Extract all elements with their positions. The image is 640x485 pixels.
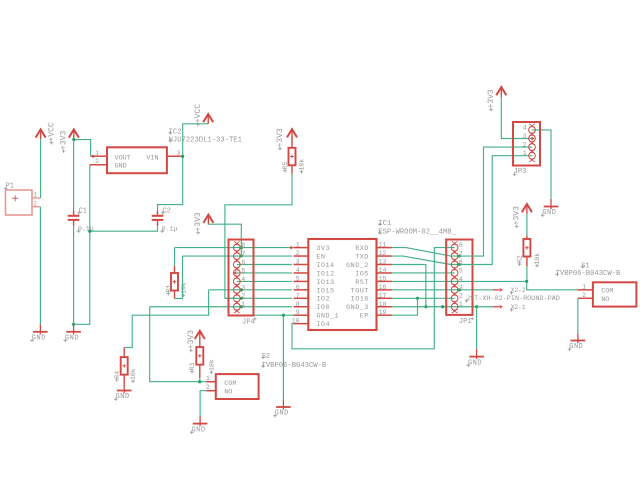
svg-text:ESP-WROOM-02__4MB_: ESP-WROOM-02__4MB_ (378, 229, 456, 237)
wire JP3 pin2 to RXD (459, 147, 532, 256)
resistor R1 body (171, 273, 178, 291)
connector JP4 arrow pin5 (233, 271, 236, 275)
ground GND-JP3 (541, 199, 559, 217)
svg-text:4: 4 (241, 276, 245, 283)
svg-text:IO2: IO2 (316, 296, 330, 304)
wire JP4 row7 IO2 (225, 297, 292, 299)
svg-text:R5: R5 (282, 162, 289, 170)
svg-text:+3V3: +3V3 (513, 206, 522, 225)
junction 3V3 row1 (240, 246, 243, 249)
relay S1 pin names (601, 287, 613, 304)
wire R4 bottom stub (123, 375, 125, 383)
svg-text:3: 3 (177, 150, 181, 157)
IC2 pin 2 (90, 164, 107, 166)
junction GND C2 (88, 230, 91, 233)
module IC1 body (308, 239, 376, 330)
svg-text:COM: COM (224, 380, 236, 388)
svg-text:VOUT: VOUT (115, 154, 131, 162)
svg-text:IO0: IO0 (316, 304, 330, 312)
svg-text:IO12: IO12 (316, 270, 334, 278)
svg-text:+3V3: +3V3 (60, 130, 69, 149)
op-amp IC2 regulator body (107, 147, 167, 173)
wire R2 top (526, 214, 528, 239)
svg-text:14: 14 (379, 267, 387, 274)
svg-text:10k: 10k (180, 282, 187, 294)
supply 3V3-R2 arrow (522, 204, 532, 214)
ground GND-S1 (568, 333, 586, 351)
svg-text:JST-XH-02-PIN-ROUND-PAD: JST-XH-02-PIN-ROUND-PAD (466, 295, 560, 303)
svg-text:GND_1: GND_1 (316, 313, 339, 321)
connector JP4 pads (233, 241, 240, 313)
IC2 name (168, 129, 181, 137)
connector JP4 name (242, 317, 257, 326)
relay S2 pin numbers (206, 375, 210, 391)
supply VCC-2 arrow (203, 114, 213, 124)
relay S2 pin 1 (206, 381, 216, 383)
svg-text:GND: GND (116, 393, 130, 401)
junction IO0 row (240, 305, 243, 308)
resistor R5 name (282, 162, 289, 173)
wire 3V3 to JP4 rows (208, 224, 241, 256)
junction IO15 row (240, 288, 243, 291)
connector P1 pin numbers (33, 192, 37, 208)
IC1 left pin names (316, 245, 339, 329)
relay S1 value (555, 270, 621, 278)
net flag X2-1 (493, 304, 526, 311)
svg-text:10k: 10k (534, 253, 541, 265)
resistor R2 name (517, 255, 524, 266)
svg-text:+VCC: +VCC (47, 122, 56, 141)
capacitor C2 body (152, 211, 164, 227)
IC1 left pin numbers (292, 242, 300, 325)
svg-text:+VCC: +VCC (194, 104, 203, 123)
svg-text:9: 9 (296, 309, 300, 316)
junction TOUT JP1 (458, 288, 461, 291)
wire JP4 row2 EN (183, 255, 293, 257)
svg-text:4: 4 (523, 124, 527, 131)
connector JP1 body (446, 240, 472, 315)
svg-text:RST: RST (355, 279, 369, 287)
relay S2 pin names (224, 380, 236, 397)
svg-text:11: 11 (379, 242, 387, 249)
relay S1 body (593, 282, 637, 306)
ground GND-S2 (190, 416, 208, 434)
svg-text:EN: EN (316, 253, 325, 261)
resistor R5 value (298, 159, 305, 174)
IC2 pin names (115, 154, 159, 170)
wire JP4 row4 IO12 (237, 272, 292, 274)
svg-text:15: 15 (379, 275, 387, 282)
wire R1 top (174, 248, 176, 273)
svg-text:R4: R4 (114, 371, 121, 379)
wire TXD diagonal (392, 256, 460, 264)
connector JP4 body (229, 240, 254, 316)
relay S2 body (216, 374, 259, 399)
connector P1 pin 2 (31, 206, 40, 208)
resistor R4 name (114, 371, 121, 382)
capacitor C1 value (77, 226, 94, 233)
svg-text:JP4: JP4 (242, 318, 255, 326)
wire VCC to P1 pin1 (40, 139, 42, 198)
supply 3V3-R5 label (276, 128, 285, 150)
resistor R1 value (180, 282, 187, 297)
svg-text:COM: COM (601, 287, 613, 295)
connector JP3 pads (529, 124, 536, 162)
wire IO4 to JP1 pin8 (292, 248, 455, 349)
IC2 pin numbers (95, 150, 180, 165)
svg-text:TOUT: TOUT (351, 287, 369, 295)
svg-text:GND: GND (192, 426, 206, 434)
wire GND_1 row9 (240, 314, 293, 316)
supply VCC-1 arrow (36, 129, 46, 139)
resistor R3 value (208, 359, 215, 374)
wire IO15 to R4 (124, 290, 208, 348)
svg-text:+3V3: +3V3 (487, 89, 496, 108)
relay S1 pin 1 (577, 289, 593, 291)
wire reg GND to GND rail (74, 165, 90, 325)
svg-text:R2: R2 (517, 255, 524, 263)
junction IO2 row (240, 297, 243, 300)
svg-text:GND: GND (569, 343, 583, 351)
resistor R4 body (121, 357, 128, 375)
svg-text:IO16: IO16 (351, 296, 369, 304)
wire R5 bottom stub (291, 165, 293, 174)
svg-text:5: 5 (459, 267, 463, 274)
svg-text:1: 1 (95, 150, 99, 157)
svg-text:IO5: IO5 (355, 270, 369, 278)
wire R5 to JP4 pin2 (225, 174, 292, 298)
svg-text:IO14: IO14 (316, 262, 334, 270)
svg-text:5: 5 (241, 267, 245, 274)
svg-text:10k: 10k (298, 159, 305, 171)
capacitor C2 value (160, 226, 177, 233)
wire R2 to S1 pin1 (527, 281, 578, 289)
supply 3V3-JP3 label (487, 89, 496, 111)
wire S1 pin2 to GND (577, 298, 579, 333)
supply 3V3-JP4 label (194, 212, 203, 234)
wire R4 top stub (123, 348, 125, 358)
wire C1 bottom to GND (73, 226, 75, 324)
svg-text:2: 2 (296, 250, 300, 257)
junction TXD JP1 (458, 263, 461, 266)
relay S1 name (581, 262, 590, 270)
connector P1 name (4, 183, 14, 191)
svg-text:3: 3 (296, 259, 300, 266)
svg-text:EP: EP (360, 313, 369, 321)
wire IO0 to S2 (150, 307, 207, 382)
svg-text:1: 1 (582, 283, 586, 290)
junction GND left (72, 323, 75, 326)
svg-text:8: 8 (459, 242, 463, 249)
svg-text:2: 2 (95, 158, 99, 165)
svg-text:3: 3 (523, 133, 527, 140)
svg-text:8: 8 (296, 301, 300, 308)
wire 3V3 node to VOUT (74, 140, 91, 157)
supply VCC-2 label (194, 104, 203, 126)
svg-text:10k: 10k (130, 368, 137, 380)
ground GND-JP4 (273, 400, 291, 418)
wire JP3 pin4 to GND (532, 130, 551, 199)
connector JP3 name (513, 168, 526, 176)
wire IO5 row (392, 272, 455, 274)
relay S1 pin numbers (582, 283, 586, 299)
ground GND-JP1 (466, 349, 484, 367)
resistor R2 body (523, 239, 530, 257)
connector JP3 pin numbers (523, 124, 527, 157)
wire GND_3 row (392, 306, 493, 308)
resistor R1 name (165, 285, 172, 296)
svg-text:4: 4 (296, 267, 300, 274)
wire R3 bottom (199, 365, 201, 382)
svg-text:IO13: IO13 (316, 279, 334, 287)
wire RST row (392, 280, 527, 282)
supply 3V3-1 label (60, 130, 69, 152)
svg-text:2: 2 (206, 384, 210, 391)
svg-text:2: 2 (523, 142, 527, 149)
svg-text:GND_3: GND_3 (346, 304, 369, 312)
capacitor C1 body (68, 211, 80, 227)
IC1 right pin numbers (379, 242, 387, 317)
svg-text:2: 2 (459, 293, 463, 300)
svg-text:1: 1 (459, 301, 463, 308)
svg-text:RXD: RXD (355, 245, 369, 253)
junction R2 RST (525, 280, 528, 283)
wire JP4 row3 IO14 (237, 264, 292, 266)
wire P1 pin2 to GND (39, 207, 41, 325)
svg-text:JP3: JP3 (514, 168, 527, 176)
wire R2 bottom (526, 257, 528, 282)
supply VCC-1 label (47, 122, 56, 144)
svg-text:GND_2: GND_2 (346, 262, 369, 270)
svg-text:2: 2 (582, 292, 586, 299)
svg-text:GND: GND (32, 335, 46, 343)
wire JP1 GND drop (476, 307, 478, 349)
svg-text:13: 13 (379, 259, 387, 266)
svg-text:3: 3 (241, 284, 245, 291)
connector JP1 value (465, 295, 560, 303)
svg-text:TVBP06-B043CW-B: TVBP06-B043CW-B (556, 270, 621, 278)
supply 3V3-R5 arrow (287, 129, 297, 139)
supply 3V3-R3 arrow (195, 331, 205, 341)
wire 3V3 to JP3 pin3 (501, 97, 532, 139)
IC2 pin 1 (91, 154, 107, 158)
svg-text:GND: GND (275, 410, 289, 418)
IC2 value (168, 137, 242, 145)
wire TOUT row (392, 289, 493, 291)
resistor R3 body (196, 347, 203, 365)
svg-text:3: 3 (459, 284, 463, 291)
IC1 right pin names (346, 245, 369, 321)
svg-text:6: 6 (296, 284, 300, 291)
junction GND_3 b (475, 305, 478, 308)
wire GND_1 down (282, 315, 284, 399)
wire EP riser (392, 298, 418, 315)
relay S2 name (261, 353, 270, 361)
resistor R4 value (130, 368, 137, 383)
svg-text:4: 4 (459, 276, 463, 283)
junction 3V3 node (72, 138, 75, 141)
svg-text:C2: C2 (162, 207, 170, 215)
svg-text:8: 8 (241, 242, 245, 249)
junction R3 S2 (198, 380, 201, 383)
connector JP3 body (513, 122, 540, 166)
junction GND_2 join (424, 305, 427, 308)
svg-text:GND: GND (542, 209, 556, 217)
svg-text:17: 17 (379, 292, 387, 299)
junction RXD JP1 (458, 254, 461, 257)
supply 3V3-R3 label (187, 330, 196, 352)
svg-text:5: 5 (296, 275, 300, 282)
wire S2 pin2 to GND (200, 391, 206, 416)
svg-text:16: 16 (379, 284, 387, 291)
wire VIN net (158, 124, 209, 211)
resistor R2 value (534, 253, 541, 268)
svg-text:12: 12 (379, 250, 387, 257)
svg-text:VIN: VIN (146, 154, 158, 162)
svg-text:TVBP06-B043CW-B: TVBP06-B043CW-B (262, 362, 327, 370)
relay S1 pin 2 (578, 297, 593, 299)
wire GND_2 drop (392, 265, 426, 307)
connector JP1 pads (451, 241, 458, 313)
connector P1 pin 1 (31, 197, 40, 199)
svg-text:1: 1 (33, 192, 37, 199)
svg-text:GND: GND (115, 162, 127, 170)
connector P1 body (6, 190, 33, 215)
supply 3V3-JP3 arrow (496, 87, 506, 97)
svg-text:GND: GND (65, 335, 79, 343)
module IC1 name (378, 220, 391, 228)
svg-text:GND: GND (468, 359, 482, 367)
relay S2 value (261, 362, 327, 370)
wire JP4 row1 3V3 (175, 247, 293, 249)
junction IO16 EP (416, 297, 419, 300)
resistor R3 name (189, 363, 196, 374)
junction EN row2 (240, 254, 243, 257)
svg-text:7: 7 (241, 250, 245, 257)
supply 3V3-JP4 arrow (203, 215, 213, 225)
supply 3V3-R2 label (513, 206, 522, 228)
net flag X2-2 (493, 287, 526, 294)
svg-text:+3V3: +3V3 (194, 212, 203, 231)
connector JP3 arrow pin3 (532, 137, 535, 141)
svg-text:1: 1 (206, 375, 210, 382)
wire R3 top (199, 341, 201, 348)
wire R5 top (291, 137, 293, 147)
svg-text:NJU7223DL1-33-TE1: NJU7223DL1-33-TE1 (169, 137, 242, 145)
supply 3V3-1 arrow (69, 129, 79, 139)
svg-text:6: 6 (241, 259, 245, 266)
ground GND-P1 (30, 324, 48, 342)
junction GND_3 a (441, 305, 444, 308)
svg-text:0.1µ: 0.1µ (162, 226, 178, 233)
svg-text:19: 19 (379, 309, 387, 316)
svg-text:NO: NO (224, 389, 232, 397)
module IC1 value (378, 229, 457, 237)
wire JP4 row6 IO15 (209, 289, 292, 291)
svg-text:C1: C1 (79, 207, 87, 215)
svg-text:3V3: 3V3 (316, 245, 330, 253)
svg-text:JP1: JP1 (459, 318, 472, 326)
relay S2 pin 2 (206, 390, 216, 392)
svg-text:1: 1 (523, 150, 527, 157)
svg-text:+3V3: +3V3 (276, 128, 285, 147)
svg-text:IO15: IO15 (316, 287, 334, 295)
svg-text:IO4: IO4 (316, 321, 330, 329)
connector JP4 pin numbers (241, 242, 245, 308)
svg-text:1: 1 (241, 301, 245, 308)
connector JP1 pin numbers (459, 242, 463, 308)
svg-text:18: 18 (379, 301, 387, 308)
capacitor C2 name (161, 207, 171, 215)
svg-text:1: 1 (296, 242, 300, 249)
wire JP3 pin1 to TXD (459, 156, 532, 265)
ground GND-C1 (63, 324, 81, 342)
svg-text:TXD: TXD (355, 253, 369, 261)
junction VIN pin3 (181, 155, 184, 158)
svg-text:R3: R3 (189, 363, 196, 371)
IC2 pin 3 (167, 155, 183, 157)
wire JP4 row5 IO13 (237, 280, 292, 282)
resistor R5 body (289, 148, 296, 166)
wire RXD diagonal (392, 248, 460, 256)
wire C2 bottom to GND rail (90, 226, 158, 231)
svg-text:+3V3: +3V3 (187, 330, 196, 349)
svg-text:10k: 10k (208, 359, 215, 371)
connector JP1 name (459, 317, 474, 326)
svg-text:7: 7 (296, 292, 300, 299)
wire JP4 row8 IO0 (150, 306, 292, 308)
wire 3V3 down to C1 (73, 140, 75, 211)
wire R1 bottom (175, 256, 183, 298)
IC1 left pin stubs (290, 246, 308, 324)
svg-text:2: 2 (241, 293, 245, 300)
junction GND_1 (282, 314, 285, 317)
wire IO16 row (392, 297, 455, 299)
IC1 right pin stubs (377, 248, 392, 316)
svg-text:2: 2 (33, 200, 37, 207)
capacitor C1 name (77, 207, 87, 215)
ground GND-R4 (114, 383, 132, 401)
svg-text:R1: R1 (165, 285, 172, 293)
svg-text:NO: NO (601, 296, 609, 304)
